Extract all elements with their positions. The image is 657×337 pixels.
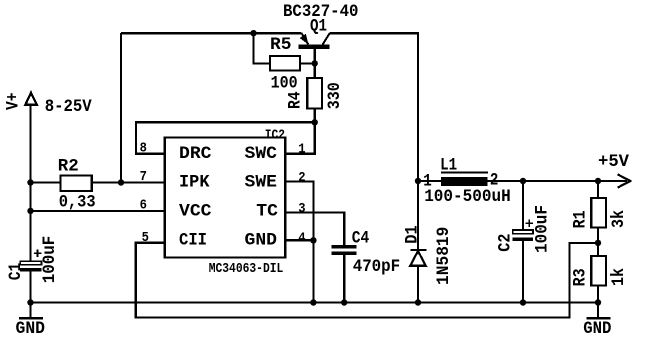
wire top rail bbox=[121, 32, 302, 34]
svg-text:MC34063-DIL: MC34063-DIL bbox=[209, 261, 284, 277]
op-amp IC2 box bbox=[165, 138, 285, 258]
capacitor C2 bbox=[513, 220, 534, 241]
wire pin1 rail bbox=[136, 122, 315, 154]
junction C2-gnd rail bbox=[520, 299, 526, 305]
svg-text:1: 1 bbox=[298, 142, 305, 158]
transistor Q1 bbox=[299, 33, 330, 78]
wire C4 to gnd rail bbox=[343, 255, 345, 303]
svg-text:C2: C2 bbox=[496, 233, 516, 251]
wire R4 to node bbox=[314, 109, 316, 123]
svg-text:0,33: 0,33 bbox=[59, 192, 96, 212]
svg-text:V+: V+ bbox=[3, 93, 23, 111]
svg-text:IPK: IPK bbox=[179, 173, 210, 193]
wire GND stub left bbox=[29, 303, 31, 319]
junction R2-riser bbox=[118, 179, 124, 185]
svg-text:100uF: 100uF bbox=[40, 236, 60, 284]
capacitor C4 bbox=[332, 245, 357, 255]
svg-text:C1: C1 bbox=[6, 263, 26, 281]
wire C2 top bbox=[522, 181, 524, 230]
junction V+ rail R2 bbox=[27, 179, 33, 185]
wire pin6 VCC bbox=[31, 210, 165, 212]
junction R4-pin1 node bbox=[312, 119, 318, 125]
wire C1 to GND bbox=[29, 272, 31, 303]
svg-text:2: 2 bbox=[298, 170, 305, 186]
ground right bbox=[587, 317, 611, 320]
resistor R2 bbox=[61, 176, 92, 192]
wire pin4 stub bbox=[285, 239, 313, 241]
svg-text:DRC: DRC bbox=[179, 144, 212, 164]
svg-text:R2: R2 bbox=[58, 157, 79, 177]
inductor L1 bbox=[441, 173, 488, 187]
svg-text:R5: R5 bbox=[270, 35, 292, 55]
power symbol +5V arrow bbox=[618, 174, 631, 187]
svg-text:C4: C4 bbox=[352, 228, 370, 248]
svg-text:3: 3 bbox=[298, 201, 305, 217]
wire R5 to base bbox=[300, 62, 315, 64]
ground left bbox=[19, 317, 43, 320]
svg-text:+5V: +5V bbox=[598, 152, 629, 172]
wire R2 right to pin7 bbox=[92, 181, 165, 183]
wire gnd stub right bbox=[597, 303, 599, 319]
resistor R4 bbox=[307, 78, 322, 109]
svg-text:GND: GND bbox=[245, 231, 278, 251]
wire pin3 to C4 bbox=[285, 213, 344, 246]
svg-text:8-25V: 8-25V bbox=[45, 97, 92, 117]
wire L1 to +5V arrow bbox=[487, 180, 627, 182]
wire R5 drop bbox=[254, 33, 271, 63]
svg-text:100: 100 bbox=[271, 73, 298, 93]
wire pin5 feedback bbox=[136, 243, 598, 318]
wire pin1 stub bbox=[285, 122, 315, 154]
junction L1-D1 node bbox=[415, 178, 421, 184]
resistor R5 bbox=[270, 56, 300, 71]
svg-text:8: 8 bbox=[140, 141, 147, 157]
wire R1 top bbox=[597, 181, 599, 198]
junction V+ rail GND bbox=[27, 299, 33, 305]
svg-text:D1: D1 bbox=[402, 225, 422, 243]
svg-text:TC: TC bbox=[256, 202, 278, 222]
svg-text:R3: R3 bbox=[570, 268, 590, 286]
wire gnd rail bbox=[31, 301, 599, 303]
diode D1 bbox=[410, 181, 427, 303]
wire R1 to R3 bbox=[597, 228, 599, 257]
wire node to L1 bbox=[418, 180, 441, 182]
svg-text:3k: 3k bbox=[609, 210, 629, 228]
wire R2 left bbox=[31, 181, 61, 183]
svg-text:R1: R1 bbox=[570, 210, 590, 228]
svg-text:100-500uH: 100-500uH bbox=[424, 187, 511, 207]
svg-text:CII: CII bbox=[179, 231, 207, 251]
svg-text:GND: GND bbox=[16, 319, 46, 337]
junction top rail R5 bbox=[250, 30, 256, 36]
wire riser to top rail bbox=[120, 33, 122, 182]
wire C2 bottom bbox=[522, 241, 524, 302]
svg-text:4: 4 bbox=[298, 230, 305, 246]
svg-text:VCC: VCC bbox=[179, 202, 212, 222]
junction C4-gnd rail bbox=[341, 299, 347, 305]
junction pin2-pin4 bbox=[310, 237, 316, 243]
svg-text:SWE: SWE bbox=[245, 173, 278, 193]
wire pin2 stub bbox=[285, 182, 313, 303]
svg-text:7: 7 bbox=[140, 169, 147, 185]
junction R3-gnd rail bbox=[595, 299, 601, 305]
svg-text:1N5819: 1N5819 bbox=[434, 227, 454, 285]
svg-text:SWC: SWC bbox=[245, 144, 278, 164]
svg-text:470pF: 470pF bbox=[353, 257, 401, 277]
wire R3 bottom bbox=[597, 286, 599, 303]
junction node C2 bbox=[520, 178, 526, 184]
resistor R3 bbox=[591, 256, 606, 286]
junction node R1 bbox=[595, 178, 601, 184]
junction base node bbox=[312, 60, 318, 66]
wire collector to right riser bbox=[330, 33, 418, 181]
wire V+ vertical to C1 bbox=[29, 105, 31, 261]
svg-text:Q1: Q1 bbox=[310, 16, 327, 36]
junction feedback node bbox=[595, 240, 601, 246]
power symbol V+ bbox=[25, 93, 37, 105]
junction pin2-gnd rail bbox=[310, 299, 316, 305]
svg-text:GND: GND bbox=[583, 319, 611, 337]
junction D1-gnd rail bbox=[415, 299, 421, 305]
svg-text:330: 330 bbox=[325, 82, 345, 109]
junction V+ rail pin6 bbox=[27, 208, 33, 214]
svg-text:R4: R4 bbox=[286, 91, 306, 109]
capacitor C1 bbox=[20, 250, 41, 272]
svg-text:1k: 1k bbox=[609, 268, 629, 286]
resistor R1 bbox=[591, 198, 606, 228]
svg-text:IC2: IC2 bbox=[265, 127, 285, 143]
svg-text:100uF: 100uF bbox=[533, 205, 553, 253]
svg-text:L1: L1 bbox=[440, 155, 457, 175]
